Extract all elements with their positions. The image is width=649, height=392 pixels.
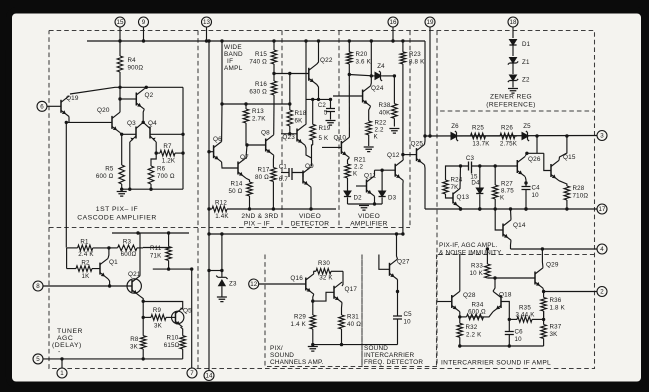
wire Z1 to Z2 [512,62,514,74]
svg-text:740 Ω: 740 Ω [249,59,267,66]
wire Q8 emitter to R17 [272,155,274,167]
svg-text:18: 18 [510,19,517,26]
svg-text:2.2: 2.2 [354,164,364,171]
wire Q14 emitter down [510,240,513,249]
svg-text:K: K [500,195,505,202]
svg-text:13: 13 [203,19,210,26]
wire Q10 base stub [322,146,341,148]
wire pin16 to rail [392,27,394,41]
resistor R26 [486,125,518,148]
resistor R14 [228,181,252,210]
pin 7 [187,368,197,378]
wire Q26 collector [525,152,544,156]
pin 15 [115,17,125,27]
transistor Q7 [238,154,249,178]
svg-text:R6: R6 [157,166,166,173]
transistor Q27 [390,259,410,280]
wire Q20 collector up [119,87,121,112]
wire Q13 emitter down [459,207,462,211]
svg-text:1.4 K: 1.4 K [291,321,307,328]
wire Q21 emitter node [142,300,145,336]
wire emitter node to Q5 collector [143,302,183,310]
wire Q19 emitter to Q20 base [66,121,112,123]
wire Q26 emitter down [524,177,527,187]
wire D4 top lead [479,166,481,188]
wire Q1 collector up [107,246,110,258]
wire Q22 collector up [317,41,319,64]
ground below R38 [389,129,399,134]
svg-text:Q7: Q7 [240,154,249,161]
svg-text:CHANNELS AMP.: CHANNELS AMP. [270,359,324,366]
wire pin8 to Q21 base [43,284,132,287]
resistor R17 [255,167,276,210]
transistor Q14 [503,220,526,240]
resistor R11 [150,233,172,269]
resistor R19 [310,99,331,145]
wire pin7 vertical rail [191,269,193,368]
wire Z3 node to pin14 rail [207,269,223,272]
label ZENER REG (REFERENCE) [486,94,535,109]
svg-text:Q16: Q16 [290,275,303,282]
wire pin1 drop [61,359,63,368]
wire Q13 collector up [459,166,462,189]
svg-text:R36: R36 [550,297,562,304]
wire pin12 to Q16 base [259,283,306,285]
pin 2 [597,287,607,297]
transistor Q17 [334,282,357,302]
resistor R1 [67,239,109,259]
svg-text:710Ω: 710Ω [573,193,589,200]
svg-text:FREQ. DETECTOR: FREQ. DETECTOR [364,359,423,366]
wire Q24 collector up [370,76,373,86]
wire D1 to Z1 [512,44,514,56]
svg-text:1: 1 [60,370,64,377]
svg-text:D1: D1 [522,41,531,48]
capacitor C1 [279,164,292,184]
label PIX-IF, AGC AMPL. & NOISE IMMUNITY [439,242,502,257]
capacitor C2 [318,102,335,117]
svg-text:Q5: Q5 [183,308,192,315]
transistor Q24 [363,85,384,106]
svg-text:Q23: Q23 [282,134,295,141]
svg-text:Z2: Z2 [522,77,530,84]
resistor R7 [156,143,183,165]
diode D2 [343,191,362,202]
svg-text:R30: R30 [318,260,330,267]
svg-text:CASCODE AMPLIFIER: CASCODE AMPLIFIER [77,215,157,222]
transistor Q28 [452,291,476,311]
svg-text:Q10: Q10 [334,135,347,142]
svg-text:WIDE: WIDE [224,44,242,51]
capacitor C5 [393,311,412,326]
svg-text:R26: R26 [501,125,513,132]
label TUNER AGC (DELAY) [52,328,83,356]
resistor R24 [443,177,463,195]
pin 13 [202,17,212,27]
svg-text:Q4: Q4 [148,120,157,127]
svg-text:VIDEO: VIDEO [299,213,321,220]
svg-text:ZENER REG: ZENER REG [490,94,532,101]
wire D3 top lead [381,170,383,190]
resistor R25 [458,125,490,148]
svg-text:R38: R38 [379,102,391,109]
wire pin14 vertical rail [207,41,210,371]
wire Q15 emitter to R28 [559,181,567,186]
sound intercarrier freq detector dashed box [362,255,437,367]
wire Q21 collector up [139,233,141,276]
wire R3 to node [143,247,170,249]
svg-text:R10: R10 [167,335,179,342]
svg-text:AMPLIFIER: AMPLIFIER [350,221,388,228]
svg-text:-: - [58,349,61,356]
wire Q6 base stub [207,150,213,153]
diode D3 [378,191,397,202]
wire Q27 collector up [397,234,398,259]
svg-text:R13: R13 [252,108,264,115]
dashed divider below amplifiers row [49,227,410,229]
svg-text:3K: 3K [550,331,559,338]
svg-text:C5: C5 [404,311,413,318]
wire C2 to ground [330,112,332,120]
dashed divider video-detector/video-amplifier [338,31,340,228]
wire Q5 emitter to R10 [181,327,183,336]
resistor R20 [347,41,372,75]
wire Q4 base lead [150,133,185,136]
svg-text:R32: R32 [466,324,478,331]
wire pin13 to rail [206,27,208,41]
wire Q18 base lead [501,302,511,322]
transistor Q22 [309,57,333,85]
resistor R36 [541,297,566,317]
wire C6 bottom lead [508,335,510,347]
wire R7 left to R6 top [151,151,158,164]
resistor R35 [509,305,543,323]
resistor R13 [243,104,266,145]
resistor R27 [492,166,514,209]
svg-text:Q1: Q1 [109,259,118,266]
svg-text:K: K [374,134,379,141]
svg-text:VIDEO: VIDEO [358,213,380,220]
wire Q27 emitter down [396,280,399,317]
capacitor C3 [466,155,478,181]
svg-text:10: 10 [532,192,540,199]
wire Q23 collector up [305,124,306,126]
resistor R5 [96,165,125,190]
svg-text:R1: R1 [80,239,89,246]
svg-text:6: 6 [40,104,44,111]
zener Z5 [522,123,532,141]
svg-text:9: 9 [142,19,146,26]
svg-text:PIX/: PIX/ [270,345,283,352]
wire Q23 emitter down [305,145,312,158]
pin 17 [597,204,607,214]
svg-text:13.7K: 13.7K [472,141,490,148]
wire R30 left lead [314,270,315,272]
svg-text:40 Ω: 40 Ω [347,321,361,328]
resistor R16 [249,73,276,104]
svg-text:15: 15 [117,19,124,26]
svg-text:R25: R25 [472,125,484,132]
wire C3 to Q26 base [472,164,518,167]
resistor R30 [314,260,344,282]
transistor Q23 [282,125,305,145]
resistor R12 [209,200,250,221]
svg-text:2: 2 [600,289,604,296]
wire Q6 collector up [221,41,223,142]
zener regulator dashed box [437,31,595,112]
ground below Z3 [217,297,227,302]
svg-text:Q12: Q12 [387,152,400,159]
svg-text:SOUND: SOUND [270,352,294,359]
wire zener row to pin3 [423,134,596,137]
wire rail right end down [424,41,426,136]
label 2ND &amp; 3RD PIX-IF [241,213,278,228]
wire pin15 to rail [119,27,121,41]
svg-text:R29: R29 [294,314,306,321]
svg-text:2.7K: 2.7K [252,116,266,123]
svg-text:32 K: 32 K [319,275,333,282]
svg-text:TUNER: TUNER [57,328,83,335]
svg-text:Q24: Q24 [371,85,384,92]
ground pix sound amp [308,347,318,352]
svg-text:(REFERENCE): (REFERENCE) [486,102,535,109]
pin 16 [388,17,398,27]
intercarrier sound dashed box [436,255,438,369]
diode D1 [509,39,531,48]
pix/sound channels amp dashed box [265,255,362,367]
wire R24 bottom to Q13 base [446,194,454,198]
svg-text:Q26: Q26 [528,156,541,163]
wire Q12 collector up [402,151,404,161]
wire C3 left to R24 [446,164,469,180]
wire Q15 base feed [544,153,551,170]
zener Z3 [216,271,237,288]
pin 18 [508,17,518,27]
svg-text:R8: R8 [130,336,139,343]
wire rail drop x306 [305,41,307,125]
wire Q22 emitter down [317,85,319,100]
wire Q2 emitter down [142,109,145,124]
wire Z3 top lead [221,234,223,271]
wire R36 bottom node [542,311,545,325]
label INTERCARRIER SOUND IF AMPL [441,360,551,367]
wire Q16 emitter node [311,294,314,315]
zener Z6 [451,123,460,141]
label VIDEO DETECTOR [291,213,330,228]
wire Q25 emitter down [424,165,427,209]
svg-text:Q8: Q8 [261,130,270,137]
wire Q18 emitter to R34 [484,312,494,317]
pin 4 [597,244,607,254]
wire pin9 to rail [143,27,145,41]
transistor Q6 [213,136,222,162]
wire Z4 node down to R38 [393,76,395,104]
svg-text:12: 12 [250,281,257,288]
wire C1 left lead [281,172,289,174]
svg-text:Q20: Q20 [97,107,110,114]
dashed right edge of video amplifier box [409,31,411,228]
svg-text:1.8 K: 1.8 K [550,305,566,312]
wire C2 top lead [329,98,332,109]
svg-text:8.75: 8.75 [501,188,514,195]
label WIDE BAND IF AMPL [224,44,243,72]
transistor Q2 [136,89,153,109]
wire Z3 bottom lead [221,286,223,296]
svg-text:3.44 K: 3.44 K [515,311,535,318]
svg-text:Z3: Z3 [229,281,237,288]
wire Q2 collector up [144,87,146,89]
svg-text:C4: C4 [532,185,541,192]
wire Q3 emitter down [129,142,131,189]
svg-text:Q29: Q29 [546,262,559,269]
svg-text:600 Ω: 600 Ω [468,308,486,315]
resistor R37 [541,324,562,347]
svg-text:80 Ω: 80 Ω [255,174,269,181]
wire Q24 base stub [333,95,363,97]
svg-text:600Ω: 600Ω [121,251,137,258]
transistor Q20 [97,107,120,133]
transistor Q5 [172,308,193,327]
svg-text:R20: R20 [356,51,368,58]
wire Q29 emitter down [542,288,545,291]
ground below C2 [326,121,336,126]
pin 8 [33,281,43,291]
svg-text:R18: R18 [295,110,307,117]
svg-text:R28: R28 [573,185,585,192]
wire Q24 emitter to R22 [369,106,371,121]
wire Q4 emitter down to R7 node [155,142,157,153]
svg-text:630 Ω: 630 Ω [249,89,267,96]
transistor Q15 [551,154,576,181]
svg-text:8: 8 [36,283,40,290]
wire pin2 rail [542,290,597,293]
svg-text:6K: 6K [295,118,304,125]
svg-text:R23: R23 [409,51,421,58]
wire C5 bottom lead [397,319,399,345]
svg-text:19: 19 [427,19,434,26]
wire Q6 emitter to Q7 base [222,162,238,168]
svg-text:INTERCARRIER: INTERCARRIER [364,352,415,359]
wire R15-R16 node to Q22 base [272,72,309,75]
svg-text:Q21: Q21 [128,271,141,278]
svg-text:10: 10 [404,319,412,326]
wire D4 bottom lead [478,195,481,211]
wire Q2 base feed [118,97,136,100]
svg-text:D2: D2 [354,195,363,202]
svg-text:R5: R5 [105,166,114,173]
wire Q12 emitter down [402,180,404,234]
wire sound ground rail [311,343,397,346]
resistor R15 [249,41,276,73]
wire Q20 emitter to R5 [120,133,122,165]
svg-text:1.4K: 1.4K [215,213,229,220]
svg-text:R12: R12 [215,200,227,207]
svg-text:Q15: Q15 [563,154,576,161]
svg-text:71K: 71K [150,253,162,260]
svg-text:Q28: Q28 [463,292,476,299]
svg-text:R7: R7 [163,143,172,150]
label PIX/ SOUND CHANNELS AMP [270,345,324,366]
wire node to pin7 rail [153,267,194,270]
transistor Q19 [61,95,79,117]
wire Q27 base feed [379,255,390,270]
svg-text:R24: R24 [451,177,463,184]
svg-text:Q17: Q17 [345,286,358,293]
svg-text:& NOISE IMMUNITY: & NOISE IMMUNITY [439,250,502,257]
svg-text:900Ω: 900Ω [128,65,144,72]
wire Z2 to ground [512,80,514,88]
svg-text:D4: D4 [471,180,480,187]
wire pin17 rail [425,207,597,210]
wire Q19 emitter down [65,117,69,248]
wire Q15 collector up [559,136,567,160]
wire D2 bottom [347,198,349,205]
wire D2 top lead [347,186,349,191]
resistor R34 [460,302,486,320]
svg-text:5: 5 [36,356,40,363]
wire detector node y99 [306,98,331,101]
IC boundary dashed box [49,31,595,369]
svg-text:615Ω: 615Ω [164,342,180,349]
pin 6 [37,101,47,111]
transistor Q13 [453,189,469,208]
svg-text:(DELAY): (DELAY) [52,342,82,349]
transistor Q10 [334,135,350,158]
wire R33 bottom to Q29 base [487,276,535,279]
wire pin4 rail [486,247,597,250]
svg-text:Z1: Z1 [522,59,530,66]
wire Q25 collector up [424,136,427,144]
wire R7 right vertical [181,87,184,189]
svg-text:6.7: 6.7 [279,176,289,183]
svg-text:2.2: 2.2 [375,127,385,134]
svg-text:DETECTOR: DETECTOR [291,221,330,228]
zener Z4 [375,63,386,81]
transistor Q21 [127,271,141,296]
svg-text:R9: R9 [153,307,162,314]
svg-text:Q22: Q22 [320,57,333,64]
svg-text:BAND: BAND [224,51,243,58]
svg-text:R14: R14 [231,181,243,188]
svg-text:C3: C3 [466,155,475,162]
svg-text:Q9: Q9 [305,163,314,170]
resistor R2 [67,248,100,280]
svg-text:2ND & 3RD: 2ND & 3RD [241,213,278,220]
svg-text:14: 14 [206,373,213,380]
wire C4 bottom [524,190,527,211]
capacitor C4 [522,185,541,200]
wire R18 bottom node [281,132,297,135]
resistor R4 [117,41,143,87]
wire C6 top lead [508,319,510,331]
wire Q21 emitter down [140,296,143,301]
svg-text:Z6: Z6 [451,123,459,130]
resistor R32 [457,317,482,346]
resistor R6 [148,165,175,190]
resistor R22 [366,120,387,144]
svg-text:Q6: Q6 [213,136,222,143]
wire pin5 ground rail [43,357,183,360]
ground video amp diodes [359,206,369,211]
svg-text:R33: R33 [471,263,483,270]
svg-text:Q27: Q27 [397,259,410,266]
svg-text:3: 3 [600,133,604,140]
svg-text:50 Ω: 50 Ω [228,188,242,195]
svg-text:C6: C6 [515,329,524,336]
ground zener reg [508,89,518,94]
wire pin18 down [512,27,514,38]
wire Q14 base feed [495,209,503,230]
